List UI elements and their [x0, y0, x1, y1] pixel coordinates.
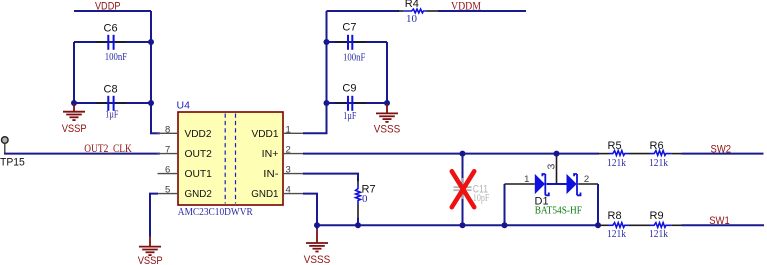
U4 pin 6 OUT1	[158, 165, 213, 180]
svg-text:VDD2: VDD2	[185, 128, 212, 140]
wire C9 horizontal	[327, 102, 388, 104]
wire OUT2_CLK (TP15 to pin 7)	[4, 153, 160, 155]
wire pin3 to R7	[303, 174, 358, 181]
svg-text:BAT54S-HF: BAT54S-HF	[535, 205, 582, 217]
svg-text:AMC23C10DWVR: AMC23C10DWVR	[178, 206, 254, 218]
svg-text:GND1: GND1	[251, 188, 278, 200]
wire left vertical C6 to C8	[73, 42, 75, 103]
node junction C11-bottom	[460, 222, 466, 228]
U4 pin 7 OUT2	[158, 145, 213, 160]
wire pin4 to ground	[303, 194, 317, 230]
svg-text:1: 1	[286, 125, 291, 136]
svg-text:TP15: TP15	[0, 156, 25, 168]
wire C8 horizontal	[74, 102, 151, 104]
ground VSSS (under U4)	[306, 230, 328, 252]
svg-text:C8: C8	[104, 84, 118, 96]
capacitor C6	[96, 23, 127, 64]
capacitor C9	[335, 83, 366, 122]
svg-text:VSSP: VSSP	[138, 255, 163, 265]
wire C7 horizontal	[327, 41, 388, 43]
U4 pin 2 IN+	[262, 145, 304, 160]
svg-text:R8: R8	[608, 210, 622, 222]
svg-text:3: 3	[286, 165, 291, 176]
svg-text:OUT2_CLK: OUT2_CLK	[84, 143, 132, 155]
svg-text:GND2: GND2	[185, 188, 213, 200]
wire C11 vertical	[462, 154, 464, 226]
svg-text:121k: 121k	[649, 157, 668, 169]
op-amp / isolator U4 body	[177, 100, 284, 219]
node junction C8-right	[148, 100, 154, 106]
svg-text:2: 2	[584, 174, 589, 185]
svg-text:IN+: IN+	[262, 148, 279, 160]
wire R7 bottom	[357, 218, 359, 225]
svg-text:VSSS: VSSS	[374, 123, 401, 135]
wire VDDP vertical riser	[150, 11, 152, 133]
svg-text:3: 3	[545, 164, 557, 170]
svg-text:121k: 121k	[607, 157, 626, 169]
svg-text:R9: R9	[650, 210, 664, 222]
svg-text:R5: R5	[608, 140, 622, 152]
ground VSSP (under U4)	[139, 237, 161, 256]
svg-text:VDD1: VDD1	[252, 128, 279, 140]
wire SW2 net (pin 2 run)	[303, 153, 599, 155]
resistor R9	[649, 210, 682, 240]
wire SW1 net (bottom run)	[317, 224, 599, 226]
svg-text:2: 2	[286, 145, 291, 156]
wire pin5 to ground	[150, 194, 158, 237]
node junction D1-pin3/SW2	[554, 151, 560, 157]
node junction pin4/SW1	[314, 222, 320, 228]
svg-text:IN-: IN-	[263, 168, 279, 180]
svg-text:100nF: 100nF	[343, 51, 365, 63]
U4 pin 4 GND1	[251, 185, 303, 200]
svg-text:OUT2: OUT2	[185, 148, 213, 160]
node junction C6-right	[148, 39, 154, 45]
wire pin8 connection	[150, 132, 160, 134]
svg-text:VDDP: VDDP	[95, 1, 121, 13]
resistor R6	[649, 140, 682, 169]
svg-text:C6: C6	[104, 23, 118, 35]
resistor R5	[599, 140, 651, 169]
svg-text:1: 1	[524, 174, 529, 185]
wire VDDP power bar	[74, 10, 151, 12]
svg-text:1µF: 1µF	[105, 108, 118, 120]
svg-text:10: 10	[406, 13, 418, 25]
wire pin1 to VDDM riser	[303, 11, 327, 133]
svg-text:8: 8	[165, 125, 170, 136]
node junction D1-pin2/SW1	[595, 222, 601, 228]
no-fit red X over C11	[452, 171, 474, 207]
node junction C8-left	[71, 100, 77, 106]
capacitor C11 (not fitted, greyed)	[454, 178, 490, 204]
diode D1 (BAT54S dual schottky)	[505, 164, 599, 217]
wire C6 top horizontal	[74, 41, 151, 43]
svg-text:6: 6	[165, 165, 170, 176]
svg-text:C9: C9	[342, 83, 356, 95]
svg-text:121k: 121k	[649, 228, 668, 240]
svg-text:SW2: SW2	[711, 143, 732, 155]
svg-text:VSSP: VSSP	[62, 123, 87, 135]
resistor R8	[600, 210, 650, 240]
ground VSSS (under C9)	[376, 104, 398, 122]
wire SW1 tail	[682, 224, 765, 226]
svg-text:VSSS: VSSS	[304, 254, 331, 265]
wire D1 pin3 to SW2	[556, 154, 558, 184]
resistor R4	[398, 0, 439, 25]
node junction R7/SW1	[355, 222, 361, 228]
svg-text:SW1: SW1	[709, 215, 730, 227]
node junction C11-top	[460, 151, 466, 157]
wire SW2 tail	[682, 153, 764, 155]
U4 pin 1 VDD1	[252, 125, 304, 140]
node junction D1-pin1/SW1	[502, 222, 508, 228]
capacitor C7	[335, 22, 366, 64]
node junction C9-left	[324, 100, 330, 106]
node junction C9-right	[384, 100, 390, 106]
svg-text:1µF: 1µF	[343, 110, 356, 122]
wire VDDM top rail left part	[327, 10, 400, 12]
svg-text:0: 0	[362, 193, 368, 205]
svg-text:U4: U4	[177, 100, 191, 112]
node junction C7-left	[324, 39, 330, 45]
U4 pin 3 IN-	[263, 165, 303, 180]
svg-text:R4: R4	[405, 0, 419, 10]
svg-text:VDDM: VDDM	[451, 0, 481, 12]
svg-text:7: 7	[165, 145, 170, 156]
svg-text:R6: R6	[650, 140, 664, 152]
wire D1 pin2 vertical	[597, 184, 599, 225]
svg-text:OUT1: OUT1	[185, 168, 213, 180]
U4 pin 8 VDD2	[158, 125, 212, 140]
wire D1 pin1 vertical	[504, 184, 506, 225]
U4 pin 5 GND2	[158, 185, 213, 200]
svg-text:10pF: 10pF	[473, 192, 490, 204]
testpoint TP15	[0, 137, 25, 169]
capacitor C8	[96, 84, 126, 121]
svg-text:100nF: 100nF	[105, 51, 127, 63]
svg-text:4: 4	[286, 185, 291, 196]
svg-text:5: 5	[165, 185, 170, 196]
svg-text:121k: 121k	[607, 228, 626, 240]
svg-text:C7: C7	[342, 22, 356, 34]
wire VDDM right part	[438, 10, 526, 12]
wire C7-right vertical down	[386, 42, 388, 103]
resistor R7	[356, 178, 376, 219]
ground VSSP (under C8)	[63, 104, 85, 120]
